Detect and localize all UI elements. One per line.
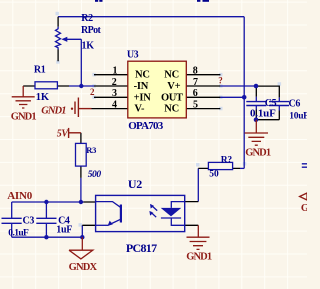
svg-text:4: 4	[112, 99, 117, 110]
svg-text:R3: R3	[86, 145, 96, 155]
svg-text:OPA703: OPA703	[128, 120, 163, 132]
svg-text:R?: R?	[221, 156, 233, 166]
svg-text:V+: V+	[167, 81, 180, 92]
svg-text:GNDX: GNDX	[69, 262, 98, 273]
svg-text:10uF: 10uF	[289, 112, 307, 122]
svg-text:6: 6	[193, 88, 198, 99]
svg-text:GND1: GND1	[41, 106, 66, 117]
svg-text:G: G	[301, 203, 307, 214]
svg-text:R1: R1	[34, 64, 46, 75]
svg-text:0.1uF: 0.1uF	[8, 229, 29, 239]
svg-text:R2: R2	[81, 13, 93, 24]
svg-text:GND1: GND1	[186, 251, 212, 262]
svg-text:2: 2	[112, 77, 117, 88]
svg-text:3: 3	[112, 88, 117, 99]
svg-text:1K: 1K	[36, 92, 50, 103]
svg-text:C3: C3	[23, 216, 35, 227]
svg-text:5: 5	[193, 99, 198, 110]
svg-text:U2: U2	[128, 177, 142, 191]
svg-text:0.1uF: 0.1uF	[250, 108, 276, 120]
svg-text:RPot: RPot	[81, 25, 102, 36]
svg-text:U3: U3	[127, 50, 139, 61]
svg-text:1uF: 1uF	[56, 224, 72, 235]
svg-text:V-: V-	[134, 104, 145, 115]
svg-text:GND1: GND1	[245, 148, 271, 159]
svg-text:1: 1	[113, 66, 118, 77]
svg-text:5V: 5V	[57, 128, 70, 139]
svg-text:?: ?	[218, 76, 223, 86]
svg-text:NC: NC	[135, 70, 150, 81]
svg-text:C6: C6	[289, 98, 301, 109]
svg-text:500: 500	[88, 170, 102, 180]
svg-text:NC: NC	[164, 70, 179, 81]
svg-text:2: 2	[90, 87, 95, 97]
svg-text:PC817: PC817	[126, 241, 157, 255]
svg-text:AIN0: AIN0	[7, 190, 33, 202]
svg-text:OUT: OUT	[161, 92, 183, 103]
svg-text:7: 7	[193, 77, 198, 88]
svg-text:NC: NC	[164, 104, 179, 115]
svg-text:1K: 1K	[82, 41, 95, 52]
svg-text:GND1: GND1	[11, 111, 37, 122]
svg-text:-IN: -IN	[134, 81, 149, 92]
svg-text:50: 50	[209, 170, 219, 180]
svg-text:8: 8	[193, 66, 198, 77]
svg-text:+IN: +IN	[134, 92, 152, 103]
